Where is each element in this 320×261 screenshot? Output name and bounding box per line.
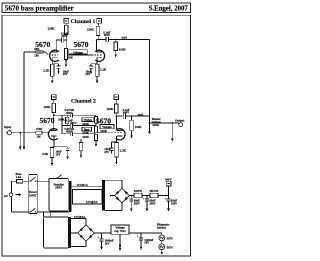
svg-text:12V@1A: 12V@1A: [77, 183, 89, 187]
svg-text:2.2K: 2.2K: [43, 69, 50, 73]
switch box Power DPST: [29, 174, 38, 213]
heater 5670 (2): [159, 244, 165, 250]
resistor 100K (bass shunt): [79, 139, 82, 151]
wire master wiper to output: [149, 122, 178, 124]
wire resistor to out2 node: [115, 113, 117, 116]
svg-text:5670: 5670: [40, 116, 55, 125]
svg-text:5670: 5670: [74, 40, 89, 49]
svg-text:350V: 350V: [171, 201, 178, 205]
svg-text:out1: out1: [122, 35, 128, 39]
svg-text:350V: 350V: [134, 201, 141, 205]
switch pole 1: [30, 178, 37, 182]
node input from ch1: [23, 132, 25, 134]
label Volume ch2 boxed: [100, 125, 114, 130]
B+ terminal box (ch2 left): [52, 95, 57, 100]
wire resistor to plate node: [65, 35, 67, 41]
wire out2 to master volume: [126, 115, 150, 117]
grid dashes V1b: [94, 54, 102, 56]
wire B+ to plate resistor ch1b: [97, 23, 99, 26]
title box frame: [2, 3, 190, 13]
svg-text:DPST: DPST: [29, 193, 37, 197]
wire AC bottom: [12, 196, 29, 212]
transformer T1 winding: [69, 181, 72, 212]
svg-text:400V: 400V: [61, 34, 68, 38]
wire pot wiper to V1b grid: [67, 54, 93, 56]
svg-text:+: +: [98, 235, 100, 239]
node filter 1: [131, 195, 133, 197]
heater 5670 (1): [159, 235, 165, 241]
bridge rectifier 2 (filament): [78, 225, 94, 241]
ground (ch1 pot): [65, 60, 68, 67]
potentiometer Volume 100K (ch2): [94, 134, 97, 140]
wire tone stack left column: [61, 115, 63, 134]
mains arrow: [16, 193, 22, 196]
potentiometer Bass 220K: [94, 126, 97, 133]
capacitor 68uF 350V (3): [167, 196, 171, 212]
ground (heater chain): [161, 250, 164, 255]
triode V1b (5670 ch1): [95, 50, 104, 61]
svg-text:220K: 220K: [48, 26, 56, 30]
svg-text:400V: 400V: [104, 33, 111, 37]
ground (ch2 V2a bypass cap): [66, 151, 69, 160]
labels channel 1: [34, 19, 127, 76]
node out1 plate junction: [97, 39, 99, 41]
wire B+ to plate resistor: [65, 23, 67, 25]
wire out2 left segment: [116, 115, 123, 117]
resistor 2.2K (ch2 V2b cathode): [115, 143, 118, 158]
B+ terminal box (ch1 left): [64, 19, 69, 24]
svg-text:reg. 7812: reg. 7812: [114, 229, 126, 233]
svg-text:12V@1A: 12V@1A: [74, 215, 86, 219]
svg-text:33/5W: 33/5W: [134, 189, 142, 193]
potentiometer Treble 220K: [94, 117, 97, 124]
wire input drop to ch2 jack: [23, 52, 25, 133]
triode V1a (5670 ch1): [50, 50, 59, 61]
resistor 220K (ch1 V1 plate): [65, 25, 69, 34]
resistor 470K (grid stopper, on wire): [36, 131, 42, 134]
svg-text:470K: 470K: [36, 127, 43, 131]
svg-text:100K: 100K: [119, 47, 127, 51]
node pot bottom: [65, 60, 67, 62]
svg-text:220K: 220K: [87, 28, 95, 32]
wire input to grid ch2: [12, 132, 49, 134]
svg-text:+: +: [165, 197, 167, 201]
svg-text:Volume: Volume: [73, 50, 83, 54]
schematic border frame: [2, 15, 190, 256]
node plate junction ch1a: [66, 39, 68, 41]
transformer T2 winding: [102, 180, 105, 210]
svg-text:400V: 400V: [70, 121, 77, 125]
resistor 68K (ch1 grid): [36, 51, 43, 54]
wire T2 secondary bottom: [105, 203, 122, 211]
svg-text:input: input: [4, 125, 11, 129]
bridge rectifier 1 (HV): [115, 188, 130, 202]
wire lower branch drop 1: [43, 212, 45, 217]
svg-text:AC: AC: [4, 194, 9, 198]
ground (out1 shunt): [114, 51, 117, 58]
node 100K shunt ch1: [115, 39, 117, 41]
labels channel 2: [4, 99, 184, 157]
svg-text:220K: 220K: [107, 107, 115, 111]
capacitor 0.047uF 400V (bass): [70, 131, 72, 136]
capacitor 0.1uF 400V (mid): [70, 123, 72, 128]
capacitor 16uF 25V (ch2 V2b bypass): [110, 142, 114, 154]
svg-text:5670 bass preamplifier: 5670 bass preamplifier: [5, 4, 74, 12]
resistor 220K (ch2 V2a plate): [52, 103, 56, 112]
labels power supply: [4, 172, 179, 250]
resistor 2.2K (ch1 V1b cathode): [95, 64, 99, 76]
potentiometer Master volume 100K (on line): [149, 122, 151, 124]
svg-text:100K: 100K: [152, 123, 159, 127]
svg-text:100K: 100K: [58, 118, 65, 122]
ground (ch1 V1a cathode R): [51, 76, 54, 83]
wire plate node right ch2: [54, 114, 62, 116]
svg-text:5670: 5670: [167, 236, 174, 240]
svg-text:400V: 400V: [123, 111, 130, 115]
wire row2 to bass pot: [73, 124, 96, 127]
wire V2b plate lead: [115, 116, 117, 129]
wire V2a cathode: [52, 136, 54, 147]
B+ terminal box 300V: [166, 181, 171, 195]
wire resistor to plate node ch2a: [53, 112, 55, 130]
node out2 plate junction: [115, 115, 117, 117]
svg-text:1.6A: 1.6A: [16, 175, 23, 179]
wire bridge2 AC bottom: [71, 241, 86, 246]
resistor 33/5W: [134, 193, 142, 197]
svg-text:100K: 100K: [82, 135, 89, 139]
wire V1b cathode: [96, 58, 98, 64]
ground (ch1 V1a bypass cap): [57, 68, 60, 74]
resistor 2.2K (ch1 V1a cathode): [50, 64, 54, 76]
voltage regulator 7812 box: [111, 225, 129, 234]
wire cap to pot: [64, 39, 67, 41]
ground (input drop 2 / 1M): [23, 133, 26, 151]
ground (bass shunt): [80, 151, 83, 158]
wire T2 secondary top: [105, 180, 122, 188]
wire wiper to V2b grid: [97, 132, 107, 134]
svg-text:100K: 100K: [100, 129, 107, 133]
input jack: [6, 131, 12, 135]
resistor 3.3K (ch2 V2a cathode): [50, 148, 53, 158]
ground (input drop 1): [19, 132, 22, 150]
svg-text:Channel 2: Channel 2: [71, 99, 96, 105]
wire cathode to bypass cap: [52, 63, 58, 65]
wire treble to bass pot: [95, 123, 97, 126]
svg-text:100K: 100K: [135, 125, 143, 129]
capacitor 16uF 25V (ch1 V1a bypass): [57, 64, 61, 68]
svg-text:Channel 1: Channel 1: [71, 19, 96, 25]
wire out1 left segment: [96, 39, 105, 41]
capacitor 68uF 350V (1): [129, 196, 133, 212]
svg-text:+: +: [143, 197, 145, 201]
capacitor 1200uF 16V: [139, 233, 143, 250]
B+ terminal box (ch1 right): [97, 19, 102, 24]
capacitor 0.1uF 400V (ch1 interstage): [61, 37, 63, 42]
wire loop secondary1: [72, 189, 102, 204]
wire plate lead V1a: [55, 40, 57, 52]
wire tone row 3: [62, 133, 70, 135]
svg-text:Output: Output: [175, 118, 184, 122]
resistor 100K (out2 shunt): [130, 116, 134, 131]
svg-text:(series): (series): [157, 226, 166, 230]
svg-text:5K/5W: 5K/5W: [150, 189, 159, 193]
svg-text:out2: out2: [138, 113, 144, 117]
ground (out2 shunt): [130, 131, 133, 139]
svg-text:300V: 300V: [165, 178, 172, 182]
capacitor 68uF 350V (2): [145, 196, 149, 212]
node 100K shunt ch2: [131, 115, 133, 117]
wire tone row 2: [62, 124, 70, 126]
resistor 100K (slope): [66, 115, 69, 125]
svg-text:50K: 50K: [68, 56, 74, 60]
transformer T1 secondary2 winding: [69, 217, 72, 248]
capacitor 16uF 25V (ch1 V1b bypass): [89, 64, 93, 68]
wire to heater chain: [161, 233, 163, 235]
wire B+ rail: [129, 195, 168, 197]
wire plate node horizontal: [56, 39, 61, 41]
wire heater link: [161, 241, 163, 244]
svg-text:220K: 220K: [82, 122, 89, 126]
wire row3 to volume pot: [73, 133, 96, 135]
ground (ch2 V2a cathode R): [51, 158, 54, 166]
capacitor 0.1uF 400V (ch2 output): [123, 113, 125, 118]
wire loop secondary2: [44, 217, 69, 248]
switch standby: [56, 175, 63, 179]
svg-text:SPST: SPST: [55, 186, 62, 190]
resistor 100K (out1 shunt): [114, 40, 118, 51]
svg-text:1M: 1M: [37, 134, 41, 138]
resistor 220K (ch1 V1b plate): [96, 26, 100, 35]
svg-text:400V: 400V: [66, 130, 73, 134]
ground (master bottom): [148, 123, 151, 134]
AC plug: [9, 193, 13, 197]
svg-text:2.2K: 2.2K: [100, 67, 107, 71]
wire power to standby: [37, 180, 49, 182]
ground (ch1 V1b cathode R): [96, 76, 99, 83]
wire cathode to cap V2b: [112, 141, 117, 143]
wire V2b cathode: [116, 136, 118, 142]
wire out1 vertical to master volume: [148, 40, 150, 124]
label Treble boxed: [82, 118, 94, 122]
svg-text:+: +: [137, 235, 139, 239]
svg-text:1M: 1M: [34, 54, 39, 58]
wire AC top: [12, 181, 17, 193]
capacitor 16uF 25V (ch2 V2a bypass): [66, 147, 70, 151]
triode V2b (5670 ch2): [116, 129, 125, 140]
wire cathode to bypass cap V1b: [91, 63, 97, 65]
capacitor 1000uF 16V: [100, 233, 104, 249]
capacitor 0.1uF 400V (ch1 output): [106, 37, 108, 42]
node lower AC branch: [43, 211, 45, 213]
wire reg ground: [119, 234, 122, 251]
output jack: [178, 123, 182, 127]
wire bridge2 left stub: [71, 232, 78, 234]
triode V2a (5670 ch2): [48, 129, 57, 140]
wire row1 to treble pot: [73, 115, 96, 116]
wire cathode to bypass cap V2a: [54, 146, 68, 148]
switch box Standby SPST: [49, 178, 68, 211]
switch pole 2: [30, 208, 37, 212]
grid wire ch1 input: [24, 51, 46, 53]
grid dashes V2b: [108, 132, 122, 134]
wire tone row 1: [62, 114, 70, 116]
svg-text:220K: 220K: [43, 105, 51, 109]
node filter 2: [146, 195, 148, 197]
ground (ch1 V1b bypass cap): [90, 68, 93, 74]
wire secondary1 top: [72, 185, 102, 187]
potentiometer Volume 50K (ch1): [65, 49, 68, 60]
resistor 5K/5W: [150, 193, 158, 197]
wire lower branch drop 2: [50, 212, 52, 217]
wire out1 to master drop: [109, 39, 150, 41]
wire B+ to plate resistor ch2b: [115, 99, 117, 104]
wire fuse to power switch: [23, 180, 29, 182]
capacitor 0.047uF 400V (treble): [70, 113, 72, 118]
node master top: [149, 115, 151, 117]
wire reg output rail: [129, 232, 162, 234]
node tone stack feed: [53, 115, 55, 117]
svg-text:12V@1A: 12V@1A: [86, 200, 98, 204]
svg-text:68K: 68K: [34, 47, 40, 51]
svg-text:350V: 350V: [149, 201, 156, 205]
fuse 1.6A: [17, 180, 23, 183]
wire lower AC run: [37, 211, 69, 213]
wire B+ to plate resistor ch2a: [53, 99, 55, 103]
wire bridge2 AC top: [71, 219, 86, 225]
node filter 3: [168, 195, 170, 197]
wire V1a cathode: [51, 58, 53, 64]
svg-text:3.3K: 3.3K: [42, 152, 49, 156]
ground (tone pot column): [95, 141, 98, 147]
wire down to volume pot: [65, 40, 67, 49]
node filament cap1: [101, 232, 103, 234]
svg-text:400V: 400V: [66, 111, 73, 115]
node filament cap2: [140, 232, 142, 234]
label Volume boxed: [69, 50, 88, 55]
wire V1b plate lead: [95, 40, 97, 53]
wire bridge1 left stub: [110, 195, 115, 197]
node output ground stub: [172, 122, 174, 124]
wire resistor to out node: [97, 36, 99, 40]
resistor 220K (ch2 V2b plate): [114, 104, 118, 113]
svg-text:S.Engel, 2007: S.Engel, 2007: [149, 5, 189, 12]
svg-text:5670: 5670: [167, 245, 174, 249]
ground (output): [171, 123, 174, 141]
label Bass boxed: [82, 127, 92, 131]
B+ terminal box (ch2 right): [114, 95, 119, 100]
wire bridge2 to reg: [94, 232, 111, 234]
svg-text:2.2K: 2.2K: [120, 148, 127, 152]
ground (ch2 V2b cathode R): [115, 157, 118, 165]
